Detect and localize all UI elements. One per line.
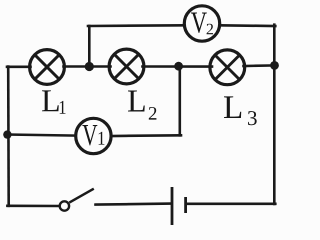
label L3 xyxy=(224,96,257,125)
wire left vertical xyxy=(7,67,10,206)
node A junction dot xyxy=(85,62,94,71)
wire L1 to L2 through node A xyxy=(64,65,111,68)
wire bottom-left to switch xyxy=(7,205,59,208)
wire top rail left of V2 xyxy=(88,24,185,27)
battery long plate (+) xyxy=(171,187,174,225)
wire branch down from node B xyxy=(179,67,182,136)
wire branch up from node A xyxy=(88,26,91,67)
lamp L1 xyxy=(30,50,65,85)
voltmeter V2 xyxy=(184,6,219,41)
label L2 xyxy=(128,91,156,120)
wire V1 right to branch corner xyxy=(110,134,181,137)
voltmeter V1 xyxy=(76,118,111,153)
battery short plate (-) xyxy=(184,197,187,213)
wire right vertical xyxy=(273,25,276,204)
switch S1 xyxy=(60,189,94,211)
node C junction dot xyxy=(270,61,279,70)
wire battery to bottom-right corner xyxy=(187,203,275,206)
node B junction dot xyxy=(174,62,183,71)
wire top-left horizontal to lamp L1 xyxy=(7,66,31,69)
wire switch contact to battery xyxy=(96,204,171,205)
lamp L3 xyxy=(210,50,245,85)
wire node D to V1 xyxy=(7,135,77,136)
node D junction dot xyxy=(3,130,11,138)
wire L2 to L3 through node B xyxy=(143,65,213,68)
wire top rail right of V2 xyxy=(219,24,275,27)
lamp L2 xyxy=(109,49,144,84)
label L1 xyxy=(42,90,66,113)
wire L3 to right node C xyxy=(244,64,277,67)
